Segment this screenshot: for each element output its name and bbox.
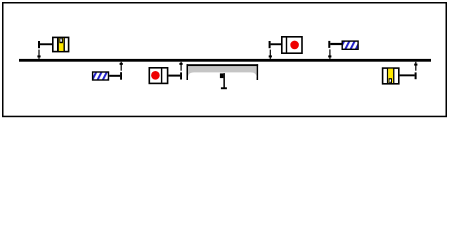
ST1 left post bbox=[187, 64, 189, 80]
S3 leader horizontal wire bbox=[271, 43, 282, 45]
S4 yellow aspect cell bbox=[388, 69, 393, 83]
S1 signal box bbox=[53, 37, 69, 51]
S3 red aspect lamp bbox=[290, 41, 299, 50]
S1 leader horizontal wire bbox=[40, 43, 52, 45]
ST1 right post bbox=[257, 64, 259, 80]
station ST1 group (gray platform bracket, below line) bbox=[187, 64, 259, 89]
detector D1 group (blue hatched box, below line left) bbox=[93, 62, 123, 80]
S4 signal box bbox=[383, 68, 399, 84]
S1 right cell divider bbox=[64, 38, 65, 51]
S3 signal box bbox=[282, 37, 302, 53]
S2 cell divider bbox=[161, 68, 162, 82]
S3 cell divider bbox=[286, 37, 287, 52]
S2 red aspect lamp bbox=[151, 71, 160, 80]
D2 leader vertical wire bbox=[329, 49, 330, 59]
D1 leader vertical wire bbox=[121, 62, 122, 71]
D2 hatched box bbox=[342, 41, 358, 49]
track line (main horizontal edge) bbox=[19, 59, 431, 62]
S1 leader vertical wire bbox=[38, 50, 39, 59]
signal S2 group (red main signal, below line) bbox=[149, 62, 182, 84]
S2 anchor T-bar bbox=[180, 72, 182, 79]
S2 leader horizontal wire bbox=[168, 75, 180, 77]
S3 arrow head (points down at track) bbox=[269, 55, 272, 57]
S1 left cell divider bbox=[57, 38, 59, 51]
S2 signal box bbox=[149, 68, 167, 84]
S4 leader horizontal wire bbox=[400, 74, 415, 76]
S4 leader vertical wire bbox=[415, 62, 416, 71]
D2 arrow head (points down at track) bbox=[328, 55, 331, 57]
S1 arrow head (points down at track) bbox=[37, 55, 40, 57]
S4 right cell divider bbox=[393, 69, 394, 84]
S4 arrow head (points up at track) bbox=[414, 64, 417, 66]
signal S4 group (yellow distant signal, below line) bbox=[383, 62, 418, 84]
ST1 top bar bbox=[187, 64, 259, 66]
D1 leader horizontal wire bbox=[109, 75, 120, 77]
ST1 station sign icon bbox=[223, 73, 225, 87]
D1 hatched box bbox=[93, 72, 109, 80]
ST1 platform gray area bbox=[188, 66, 257, 77]
S3 leader vertical wire bbox=[270, 50, 271, 59]
S2 leader vertical wire bbox=[181, 62, 182, 71]
S3 anchor T-bar bbox=[269, 41, 271, 48]
S1 icon (mast glyph hanging down, black U with white notch) bbox=[59, 38, 63, 43]
frame border bbox=[3, 3, 447, 117]
D2 anchor T-bar bbox=[328, 41, 330, 48]
S4 icon (mast glyph standing up, black U with white notch) bbox=[389, 78, 392, 83]
S4 anchor T-bar bbox=[415, 72, 417, 79]
detector D2 group (blue hatched box, above line right) bbox=[328, 41, 358, 59]
D1 arrow head (points up at track) bbox=[120, 63, 123, 65]
S2 arrow head (points up at track) bbox=[179, 63, 182, 65]
signal S3 group (red main signal, above line) bbox=[269, 37, 302, 59]
S1 yellow aspect cell bbox=[59, 38, 64, 51]
S1 anchor T-bar bbox=[38, 41, 40, 48]
D2 leader horizontal wire bbox=[330, 43, 341, 45]
S4 left cell divider bbox=[387, 69, 388, 84]
signal S1 group (yellow distant signal, above line) bbox=[37, 37, 68, 58]
D1 anchor T-bar bbox=[120, 72, 122, 80]
